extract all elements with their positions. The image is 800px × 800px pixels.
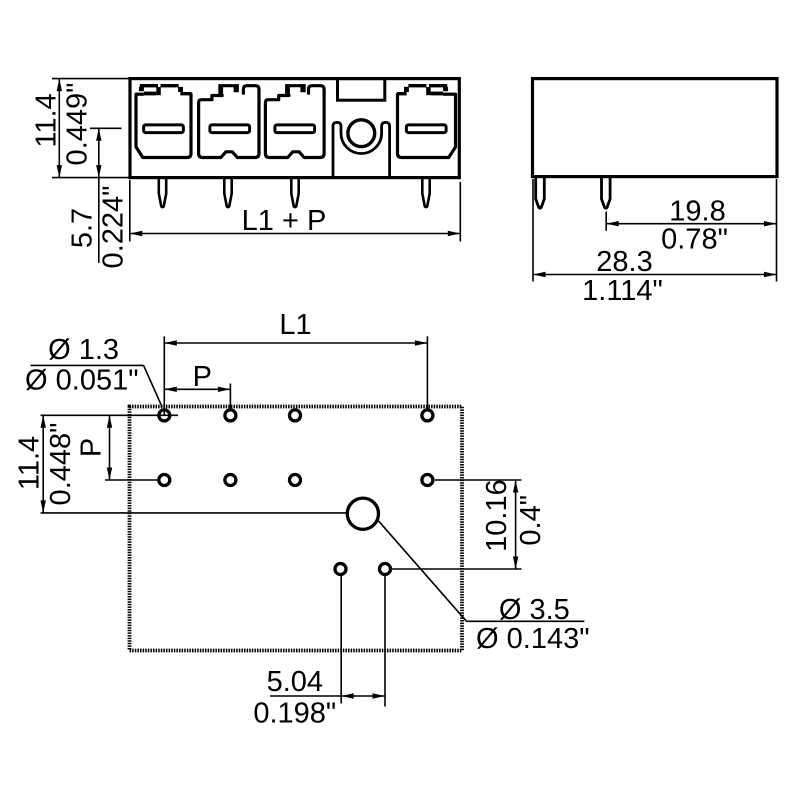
svg-text:Ø 3.5: Ø 3.5	[499, 594, 570, 626]
svg-text:10.16: 10.16	[481, 479, 513, 552]
svg-text:0.448": 0.448"	[45, 423, 77, 506]
svg-text:P: P	[193, 361, 212, 393]
svg-text:1.114": 1.114"	[582, 275, 663, 307]
svg-text:0.449": 0.449"	[62, 83, 94, 166]
svg-text:5.7: 5.7	[67, 208, 99, 248]
svg-text:0.4": 0.4"	[515, 495, 547, 546]
svg-text:Ø 1.3: Ø 1.3	[48, 334, 119, 366]
svg-text:Ø 0.051": Ø 0.051"	[25, 365, 138, 397]
svg-text:28.3: 28.3	[596, 246, 652, 278]
svg-text:0.224": 0.224"	[98, 186, 130, 269]
svg-text:Ø 0.143": Ø 0.143"	[476, 623, 589, 655]
svg-text:L1: L1	[279, 309, 311, 341]
svg-text:11.4: 11.4	[14, 436, 46, 490]
svg-text:L1 + P: L1 + P	[242, 205, 327, 237]
svg-text:0.198": 0.198"	[253, 698, 336, 730]
svg-text:P: P	[76, 438, 108, 457]
svg-text:11.4: 11.4	[31, 93, 63, 147]
svg-text:5.04: 5.04	[267, 666, 323, 698]
svg-text:0.78": 0.78"	[661, 224, 728, 256]
